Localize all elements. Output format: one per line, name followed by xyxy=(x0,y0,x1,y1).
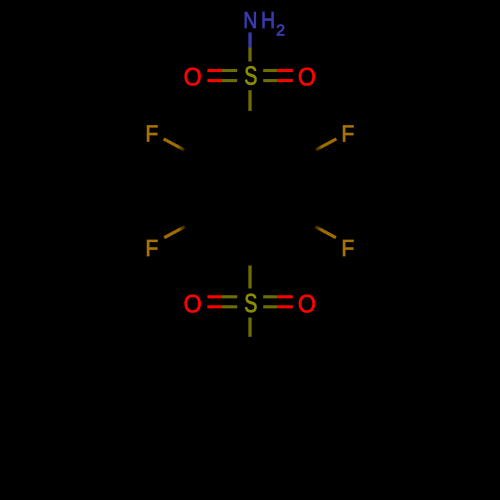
double bond S2=O right (two lines, olive S-half / red O-half) xyxy=(263,297,293,307)
svg-text:O: O xyxy=(184,64,202,92)
amine NH2 label (N of sulfonamide) xyxy=(243,7,285,39)
atom F bottom-left xyxy=(145,235,158,261)
bond S2-C1' to phenyl (sulfur half, olive; carbon half invisible) xyxy=(248,318,251,337)
svg-text:F: F xyxy=(145,121,158,147)
svg-text:O: O xyxy=(184,291,202,319)
bond S1-C1 (sulfur half, olive; carbon half invisible) xyxy=(248,90,251,111)
svg-text:S: S xyxy=(244,61,257,90)
svg-text:F: F xyxy=(341,235,354,261)
atom F bottom-right xyxy=(341,235,354,261)
atom S1 (sulfonamide sulfur) xyxy=(244,61,257,90)
atom S2 (bottom sulfonyl sulfur) xyxy=(244,288,257,317)
atom O (left of bottom sulfonyl) xyxy=(184,291,202,319)
atom F top-right xyxy=(341,121,354,147)
bond C3-F bottom-left (fluorine half, gold) xyxy=(164,227,185,238)
double bond S1=O left (two lines, red O-half / olive S-half) xyxy=(207,71,237,81)
bond N-S1 (nitrogen half, blue) xyxy=(248,32,251,47)
atom O (right of top sulfonyl) xyxy=(298,64,316,92)
svg-text:O: O xyxy=(298,291,316,319)
bond N-S1 (sulfur half, olive) xyxy=(248,48,251,62)
bond C2-F top-left (fluorine half, gold) xyxy=(164,139,185,150)
svg-text:F: F xyxy=(341,121,354,147)
svg-text:2: 2 xyxy=(276,23,285,40)
svg-text:H: H xyxy=(261,7,275,33)
atom F top-left xyxy=(145,121,158,147)
svg-text:N: N xyxy=(243,7,257,33)
atom O (right of bottom sulfonyl) xyxy=(298,291,316,319)
bond C6-F top-right (fluorine half, gold) xyxy=(316,139,337,150)
bond C5-F bottom-right (fluorine half, gold) xyxy=(315,227,336,238)
atom O (left of top sulfonyl) xyxy=(184,64,202,92)
svg-text:O: O xyxy=(298,64,316,92)
svg-text:F: F xyxy=(145,235,158,261)
double bond S2=O left (two lines, red O-half / olive S-half) xyxy=(207,297,237,307)
svg-text:S: S xyxy=(244,288,257,317)
bond C4-S2 (sulfur half, olive; carbon half invisible) xyxy=(248,266,251,289)
double bond S1=O right (two lines, olive S-half / red O-half) xyxy=(263,71,293,81)
